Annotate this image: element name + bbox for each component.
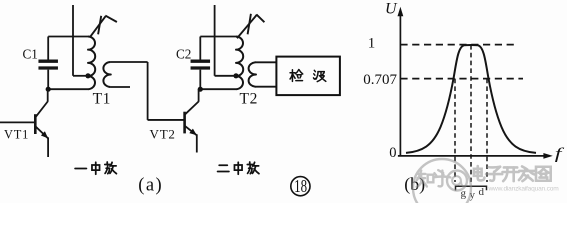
svg-text:www.dianzkaifaquan.com: www.dianzkaifaquan.com [488,186,560,193]
svg-text:0.707: 0.707 [363,72,397,88]
svg-text:VT2: VT2 [150,127,176,142]
svg-text:C2: C2 [176,46,191,61]
svg-text:T1: T1 [93,90,111,107]
svg-text:C1: C1 [23,46,38,61]
svg-text:18: 18 [294,177,307,196]
svg-text:(a): (a) [138,176,163,196]
svg-text:T2: T2 [240,90,258,107]
svg-text:0: 0 [389,145,396,161]
svg-text:VT1: VT1 [4,128,29,142]
svg-text:1: 1 [368,36,376,52]
svg-text:U: U [385,1,398,18]
svg-text:d: d [479,186,485,198]
